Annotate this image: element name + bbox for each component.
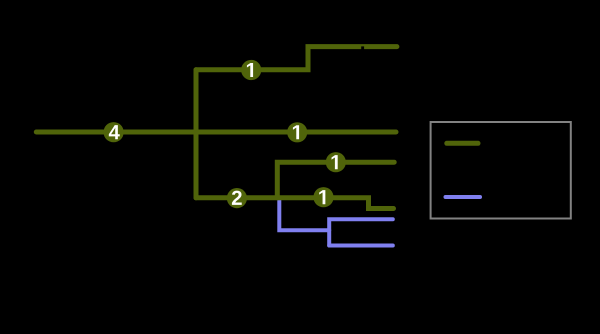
olive bottom branch with step-down leaf [196,198,394,209]
legend box [431,122,571,219]
label 1 top [247,63,253,77]
black label notch overlapping top leaf line [361,46,364,49]
olive upper child branch [277,162,394,198]
node circle 1 middle [287,122,307,142]
node circle 1 upper child [326,152,346,172]
label 4 [109,125,120,139]
label 1 upper child [332,155,338,169]
olive trunk vertical [194,70,199,198]
legend blue sample line [446,195,481,199]
blue branch: upper leaf [329,219,393,245]
label 1 middle [293,125,299,139]
node circle 2 [227,188,247,208]
blue branch: vertical drop from node, to lower cluster [279,198,329,230]
legend olive sample line [447,141,478,146]
label 1 lower child [319,190,325,204]
olive top branch with step-up leaf [196,47,397,70]
olive root branch and middle leaf [36,130,396,135]
blue branch: lower leaf [329,244,393,248]
node circle 1 top [241,60,261,80]
label 2 [232,191,242,205]
node circle 1 lower child [313,187,333,207]
node circle 4 [104,122,124,142]
